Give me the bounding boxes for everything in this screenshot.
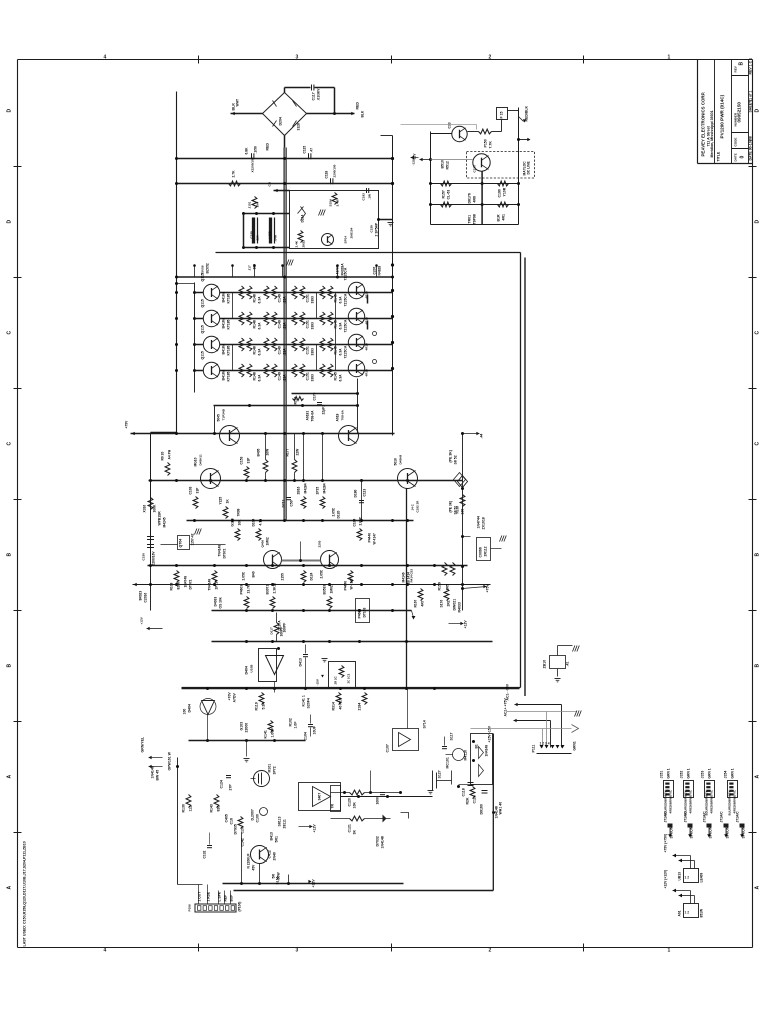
svg-text:P4603: P4603 [358,609,362,619]
svg-text:1R5: 1R5 [446,584,450,590]
svg-text:A: A [7,886,13,890]
svg-text:J71A/C: J71A/C [736,811,740,823]
svg-text:112: 112 [189,806,193,812]
svg-text:Q115: Q115 [201,351,205,359]
svg-text:D: D [755,220,761,224]
svg-text:B: B [755,664,761,668]
svg-text:3C 1C1: 3C 1C1 [347,673,351,683]
svg-text:F 15: F 15 [500,111,504,118]
svg-text:J17: J17 [248,265,252,270]
svg-text:D120: D120 [337,510,341,518]
svg-text:.04H: .04H [274,234,278,241]
svg-text:W 4147: W 4147 [373,533,377,545]
svg-text:C50: C50 [290,500,294,506]
svg-text:CL-63: CL-63 [447,190,451,200]
svg-text:1N4148: 1N4148 [151,766,155,778]
svg-text:6.3A: 6.3A [339,296,343,304]
svg-text:T9P98: T9P98 [473,214,477,224]
svg-text:+12V: +12V [313,824,317,833]
svg-text:REV: REV [734,65,738,72]
svg-text:1 2: 1 2 [685,911,690,915]
svg-text:2.05C: 2.05C [320,569,324,578]
svg-text:.33A: .33A [283,374,287,382]
svg-text:S176: S176 [440,600,444,608]
svg-text:C151: C151 [306,294,310,302]
svg-text:GRN 1: GRN 1 [667,768,671,778]
svg-text:MG10: MG10 [194,457,198,466]
svg-text:1K: 1K [226,499,230,504]
svg-text:D404: D404 [245,666,249,674]
svg-text:R145: R145 [334,372,338,380]
svg-text:+70V: +70V [228,692,232,701]
svg-text:R314: R314 [332,702,336,710]
svg-text:OPW161 W: OPW161 W [168,751,172,770]
svg-text:R177: R177 [286,448,290,456]
svg-text:2184: 2184 [358,703,362,711]
svg-text:DATE: DATE [734,153,738,161]
svg-text:4.7: 4.7 [259,521,263,526]
svg-text:2N32: 2N32 [302,240,306,248]
svg-text:5045: 5045 [217,414,221,422]
svg-text:REF: REF [224,895,228,902]
svg-text:C190: C190 [498,189,502,197]
svg-text:R4033: R4033 [458,602,462,612]
svg-text:B3071: B3071 [266,585,270,595]
svg-text:1: 1 [668,948,671,954]
svg-text:A61: A61 [678,910,682,916]
svg-text:BLK: BLK [361,110,365,117]
svg-text:2155: 2155 [281,573,285,581]
svg-text:7R09: 7R09 [237,508,241,516]
svg-text:.44: .44 [480,434,484,439]
svg-text:C: C [7,442,13,446]
svg-text:C132: C132 [203,850,207,858]
svg-text:B510: B510 [441,160,445,168]
svg-text:M4110: M4110 [464,750,468,761]
svg-text:D45H11: D45H11 [199,454,203,465]
svg-text:DC LINE: DC LINE [527,161,531,175]
svg-text:GRN1: GRN1 [573,741,577,750]
svg-text:J152: J152 [680,771,684,779]
svg-text:820: 820 [217,806,221,812]
svg-text:40 R10: 40 R10 [339,698,343,709]
svg-text:6.3A: 6.3A [339,322,343,330]
svg-text:1.0UF: 1.0UF [271,727,275,737]
svg-text:R102: R102 [289,718,293,726]
svg-text:B418A: B418A [222,317,226,328]
svg-text:6.8K: 6.8K [245,147,249,155]
svg-text:J71A/C: J71A/C [720,811,724,823]
svg-text:2200/100: 2200/100 [333,164,337,177]
svg-text:.33A: .33A [283,322,287,330]
svg-text:B: B [7,553,13,557]
svg-text:D: D [7,220,13,224]
svg-text:C207: C207 [373,266,377,274]
svg-text:C: C [7,331,13,335]
svg-text:2.05C: 2.05C [332,507,336,516]
svg-text:B413: B413 [270,832,274,840]
svg-text:CODE: CODE [734,138,738,147]
svg-text:.1W: .1W [368,194,372,200]
svg-text:P4603: P4603 [240,585,244,595]
svg-text:DW021: DW021 [453,599,457,611]
svg-text:4R1: 4R1 [502,214,506,220]
svg-text:D7935: D7935 [234,824,238,834]
svg-text:B: B [755,553,761,557]
svg-text:T08-6A: T08-6A [311,410,315,422]
svg-text:6.3A: 6.3A [258,374,262,382]
svg-text:1000: 1000 [376,797,380,805]
svg-text:3: 3 [296,55,299,61]
svg-text:.47: .47 [310,148,314,153]
svg-text:ZB10: ZB10 [543,660,547,669]
svg-text:-15V: -15V [316,679,320,685]
svg-text:C153: C153 [240,456,244,464]
svg-text:D: D [7,109,13,113]
svg-text:3407: 3407 [318,793,322,801]
svg-text:BW 45: BW 45 [156,770,160,781]
svg-text:R143: R143 [210,804,214,812]
svg-text:4: 4 [104,55,107,61]
svg-text:7215CA: 7215CA [344,345,348,358]
svg-text:D117: D117 [270,627,274,635]
svg-text:C16: C16 [230,818,234,824]
svg-text:X2200/100: X2200/100 [251,157,255,172]
svg-text:2.7K: 2.7K [232,170,236,178]
svg-text:C114: C114 [473,795,477,803]
svg-text:C149: C149 [278,372,282,380]
svg-text:4R15: 4R15 [365,343,369,351]
svg-text:D4033: D4033 [214,597,218,607]
svg-text:+12V: +12V [464,620,468,629]
svg-text:1157-42: 1157-42 [191,533,195,545]
svg-text:Q115: Q115 [201,325,205,333]
svg-text:J154: J154 [724,771,728,779]
svg-text:7R: 7R [331,804,335,809]
svg-text:3393: 3393 [311,322,315,330]
svg-text:R158: R158 [456,506,460,514]
svg-text:4/RED/BRN/GY/C: 4/RED/BRN/GY/C [710,789,714,813]
svg-text:B40: B40 [252,571,256,577]
svg-text:B1: B1 [475,744,479,748]
svg-text:851W: 851W [700,908,704,918]
svg-text:M101: M101 [268,764,272,773]
svg-text:U10B: U10B [250,664,254,673]
svg-text:6.3A: 6.3A [339,374,343,382]
svg-text:C: C [755,442,761,446]
svg-text:2B16: 2B16 [297,486,301,494]
svg-text:2.05C: 2.05C [242,571,246,580]
svg-text:N 2200UF: N 2200UF [247,853,251,868]
svg-text:3393: 3393 [311,296,315,304]
svg-text:C149: C149 [278,346,282,354]
svg-text:R148: R148 [253,320,257,328]
svg-text:0: 0 [740,156,746,159]
svg-text:.1/50: .1/50 [254,146,258,153]
svg-text:Q406: Q406 [261,540,265,548]
svg-text:100: 100 [253,264,257,270]
svg-text:5010: 5010 [394,458,398,466]
svg-text:13.7K: 13.7K [247,584,251,593]
svg-text:PV1200 PWR (014C): PV1200 PWR (014C) [720,94,725,138]
svg-text:27P: 27P [229,784,233,791]
svg-text:A: A [755,886,761,890]
svg-text:C192 3R: C192 3R [416,500,420,513]
svg-text:L102: L102 [268,231,272,238]
svg-text:C412: C412 [268,850,272,858]
svg-text:S127: S127 [438,770,442,778]
svg-text:NUMBER: NUMBER [734,112,738,126]
svg-text:D124: D124 [310,572,314,580]
svg-text:2N40: 2N40 [273,852,277,860]
svg-text:C110: C110 [473,165,477,173]
svg-text:D204: D204 [279,117,283,125]
svg-text:R159: R159 [438,582,442,590]
svg-text:C124: C124 [220,780,224,788]
svg-text:6.3A: 6.3A [258,296,262,304]
svg-text:BLU/RED/BRN/GY: BLU/RED/BRN/GY [728,791,732,816]
svg-text:SPKON: SPKON [726,826,730,838]
svg-text:R130: R130 [182,804,186,812]
svg-text:4/RED/BRN/GY/C: 4/RED/BRN/GY/C [669,789,673,813]
svg-text:+12V: +12V [312,879,316,888]
svg-text:1 RSE: 1 RSE [207,891,211,901]
svg-text:14 C: 14 C [411,503,415,510]
svg-text:TN4148: TN4148 [218,545,222,557]
svg-text:C150: C150 [142,553,146,561]
svg-text:S714: S714 [423,720,427,728]
svg-text:DT103: DT103 [363,607,367,617]
svg-text:D,2007: D,2007 [251,809,255,820]
svg-text:QT04: QT04 [179,539,183,548]
svg-text:SPKON: SPKON [690,826,694,838]
svg-text:K141: K141 [264,730,268,738]
svg-text:LAST USED: C150,R158,Q120,D117: LAST USED: C150,R158,Q120,D117,U10B,J17,… [23,841,27,946]
svg-text:4: 4 [104,948,107,954]
svg-text:PEAVEY ELECTRONICS CORP.: PEAVEY ELECTRONICS CORP. [701,92,706,157]
svg-text:Y10R: Y10R [503,187,507,196]
svg-text:100: 100 [183,709,187,715]
svg-text:C151: C151 [306,320,310,328]
svg-text:1 OUT: 1 OUT [198,892,202,902]
svg-text:R2K: R2K [466,797,470,804]
svg-text:-12V: -12V [412,158,416,165]
svg-text:B418A: B418A [222,369,226,380]
svg-text:1N4148: 1N4148 [485,745,489,757]
svg-text:J71A/C: J71A/C [664,811,668,823]
svg-text:1N4148: 1N4148 [381,836,385,848]
svg-text:2R2: 2R2 [447,600,451,606]
svg-text:4R7: 4R7 [421,600,425,606]
svg-text:C0066: C0066 [479,547,483,557]
svg-text:22W: 22W [296,448,300,456]
svg-text:R148: R148 [253,372,257,380]
svg-text:D404: D404 [188,704,192,712]
svg-text:R512: R512 [446,161,450,169]
svg-text:2R112: 2R112 [484,546,488,556]
svg-text:Y225: Y225 [219,497,223,505]
svg-text:+75V: +75V [486,584,490,593]
svg-text:C2016: C2016 [144,593,148,603]
svg-text:SPKON: SPKON [742,826,746,838]
svg-text:T1P34B: T1P34B [222,408,226,420]
svg-text:TITLE: TITLE [717,151,721,161]
svg-text:M4245: M4245 [163,517,167,527]
svg-text:D180: D180 [354,489,358,497]
svg-text:Z5V56: Z5V56 [201,265,205,274]
svg-text:SPKON: SPKON [709,826,713,838]
svg-text:C33: C33 [448,122,452,128]
svg-text:RED: RED [266,143,270,151]
svg-text:4/RED/BRN/GY/C: 4/RED/BRN/GY/C [733,789,737,813]
svg-text:2P15: 2P15 [316,487,320,495]
svg-text:D7032: D7032 [376,836,380,846]
svg-text:C113: C113 [363,489,367,497]
svg-text:Q115: Q115 [201,273,205,281]
svg-text:10UF: 10UF [313,725,317,734]
svg-text:.33A: .33A [283,296,287,304]
svg-text:C103: C103 [189,486,193,494]
svg-text:C118: C118 [325,171,329,179]
svg-text:UB13: UB13 [678,872,682,881]
svg-text:D: D [755,109,761,113]
svg-text:A7DV: A7DV [233,692,237,702]
svg-text:1M02: 1M02 [266,537,270,545]
svg-text:3K: 3K [353,830,357,835]
svg-text:28111: 28111 [283,819,287,828]
svg-text:43707: 43707 [336,265,340,274]
svg-text:9R023: 9R023 [139,591,143,601]
svg-text:6.3A: 6.3A [258,348,262,356]
svg-text:R148: R148 [253,294,257,302]
svg-text:22pF2: 22pF2 [322,405,326,415]
svg-text:C149: C149 [278,320,282,328]
svg-text:SHEET 1 of 1: SHEET 1 of 1 [749,91,753,113]
svg-text:G103: G103 [240,722,244,731]
svg-text:GRN/YEL: GRN/YEL [141,736,145,752]
svg-text:R108: R108 [170,582,174,590]
svg-text:C151: C151 [306,346,310,354]
svg-text:4R15: 4R15 [365,369,369,377]
svg-text:B405: B405 [257,448,261,456]
svg-text:R119: R119 [255,702,259,710]
svg-text:2: 2 [489,948,492,954]
svg-text:+75V (+75V): +75V (+75V) [664,834,668,853]
svg-text:B: B [739,62,745,66]
svg-text:BZX52: BZX52 [206,263,210,273]
svg-text:C121: C121 [348,824,352,832]
svg-text:A618: A618 [336,413,340,421]
svg-text:D104: D104 [252,518,256,526]
svg-text:2.4K: 2.4K [295,240,299,247]
svg-text:LE409: LE409 [700,873,704,883]
svg-text:1N4748: 1N4748 [184,576,188,588]
svg-text:31P: 31P [196,487,200,494]
svg-text:DT972: DT972 [223,548,227,558]
svg-text:2N5154: 2N5154 [350,227,354,238]
svg-text:100PF: 100PF [280,627,284,637]
svg-text:GRN 1: GRN 1 [708,768,712,778]
svg-text:R167: R167 [414,599,418,607]
svg-text:J71A/C: J71A/C [703,811,707,823]
svg-text:45V: 45V [252,864,256,871]
svg-text:100K: 100K [153,504,157,513]
svg-text:C193: C193 [362,193,366,201]
svg-text:MC101: MC101 [446,757,450,768]
svg-text:20W: 20W [266,448,270,456]
svg-text:AC1- -75V: AC1- -75V [506,683,510,700]
svg-text:1: 1 [668,55,671,61]
svg-text:3: 3 [296,948,299,954]
svg-text:31P: 31P [247,457,251,464]
svg-text:7215CA: 7215CA [344,293,348,306]
svg-text:S8113: S8113 [278,817,282,827]
svg-text:C149: C149 [278,294,282,302]
svg-text:C115: C115 [303,146,307,154]
svg-text:5.3K: 5.3K [262,702,266,710]
svg-text:C405: C405 [225,814,229,822]
svg-text:G103: G103 [231,518,235,526]
svg-text:+75V: +75V [125,420,129,429]
svg-text:D45H8: D45H8 [399,455,403,465]
svg-text:D413: D413 [299,658,303,666]
svg-text:C107: C107 [386,744,390,752]
svg-text:WHT: WHT [236,99,240,107]
svg-text:GRN 1: GRN 1 [731,768,735,778]
svg-text:22000: 22000 [245,723,249,733]
svg-text:SL16: SL16 [276,876,280,884]
svg-text:(PE 3K): (PE 3K) [449,450,453,462]
svg-text:C118: C118 [462,788,466,796]
svg-text:S154: S154 [329,199,333,207]
svg-text:WH1 40: WH1 40 [499,802,503,815]
svg-text:DATE 90-10-08: DATE 90-10-08 [749,136,753,160]
svg-text:1 2: 1 2 [685,876,690,880]
svg-text:3P72: 3P72 [273,766,277,774]
svg-text:B3533: B3533 [323,585,327,595]
svg-text:M4284: M4284 [323,483,327,493]
svg-text:R157: R157 [442,190,446,198]
svg-text:A: A [7,775,13,779]
svg-text:C142: C142 [241,838,245,846]
svg-text:P106: P106 [188,904,192,912]
svg-text:AC1+ +75V: AC1+ +75V [504,698,508,717]
svg-text:SPKON: SPKON [670,826,674,838]
svg-text:6.3A: 6.3A [258,322,262,330]
svg-text:C179: C179 [313,392,317,400]
svg-text:P111: P111 [532,745,536,753]
svg-text:C100: C100 [256,814,260,822]
svg-text:C: C [755,331,761,335]
svg-text:C104: C104 [353,518,357,526]
svg-text:L SPK: L SPK [218,891,222,901]
svg-text:KT185: KT185 [227,319,231,329]
svg-text:C151: C151 [306,372,310,380]
svg-text:5R1: 5R1 [275,836,279,842]
svg-text:2R 2C: 2R 2C [334,675,338,684]
svg-text:C117: C117 [312,92,316,100]
svg-text:7.7K: 7.7K [489,141,493,149]
svg-text:D712: D712 [282,499,286,507]
svg-text:1N4: 1N4 [256,202,260,208]
svg-text:+12V: +12V [140,616,144,624]
svg-text:1.0F: 1.0F [294,721,298,729]
svg-text:J151: J151 [660,771,664,779]
svg-text:ZX1018: ZX1018 [482,517,486,529]
svg-text:C159: C159 [370,225,374,233]
svg-text:220: 220 [256,235,260,240]
svg-text:+12V (+12V): +12V (+12V) [664,870,668,889]
